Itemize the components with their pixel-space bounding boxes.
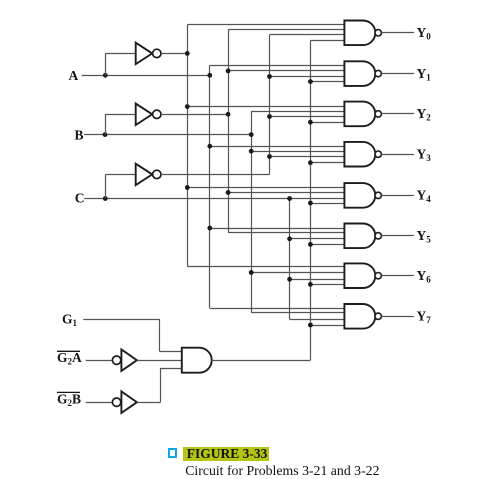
- svg-text:Y0: Y0: [417, 25, 432, 42]
- svg-text:Y4: Y4: [417, 188, 432, 205]
- svg-text:A: A: [69, 68, 79, 83]
- svg-text:B: B: [75, 128, 84, 143]
- svg-text:G2A: G2A: [57, 350, 82, 367]
- svg-text:C: C: [75, 190, 85, 205]
- svg-text:Y1: Y1: [417, 66, 432, 83]
- svg-text:Y2: Y2: [417, 106, 432, 123]
- svg-text:G2B: G2B: [57, 391, 81, 408]
- svg-text:Y6: Y6: [417, 268, 432, 285]
- svg-text:Y5: Y5: [417, 228, 432, 245]
- svg-text:G1: G1: [62, 312, 78, 329]
- svg-text:Y3: Y3: [417, 147, 432, 164]
- svg-text:Y7: Y7: [417, 309, 432, 326]
